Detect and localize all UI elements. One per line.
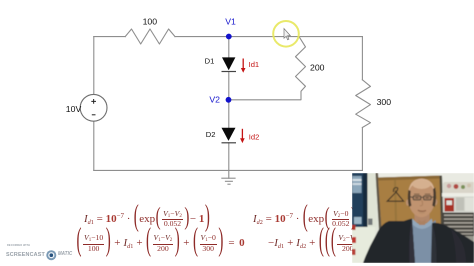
svg-text:10V: 10V xyxy=(66,104,82,114)
svg-text:100: 100 xyxy=(143,17,158,27)
svg-text:D2: D2 xyxy=(206,130,216,139)
svg-text:V2: V2 xyxy=(209,94,220,104)
svg-text:D1: D1 xyxy=(205,57,215,66)
svg-text:200: 200 xyxy=(310,63,325,73)
svg-text:Id2: Id2 xyxy=(249,132,260,141)
svg-text:Id1: Id1 xyxy=(249,60,260,69)
svg-text:300: 300 xyxy=(377,97,392,107)
svg-text:V1: V1 xyxy=(225,16,236,26)
